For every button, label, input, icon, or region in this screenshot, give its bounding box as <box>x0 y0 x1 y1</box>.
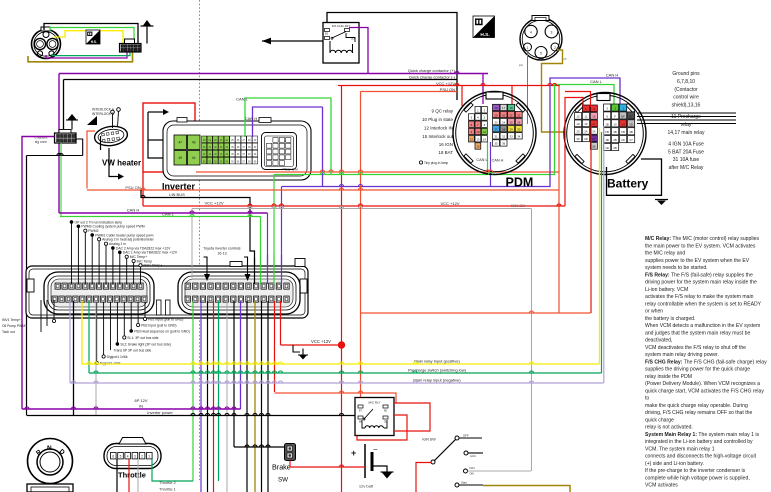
svg-text:11: 11 <box>584 115 587 119</box>
svg-text:22: 22 <box>517 113 521 117</box>
svg-text:23: 23 <box>494 120 498 124</box>
svg-text:1D: 1D <box>629 122 633 126</box>
svg-text:30: 30 <box>517 128 521 132</box>
svg-text:2: 2 <box>554 46 556 50</box>
svg-text:(Power Delivery Module). When: (Power Delivery Module). When VCM recogn… <box>645 381 760 387</box>
svg-text:IN: IN <box>139 404 143 409</box>
svg-text:12 Interlock IN: 12 Interlock IN <box>424 126 453 131</box>
svg-text:complete while high voltage po: complete while high voltage power is sup… <box>645 475 750 481</box>
svg-text:or when: or when <box>645 309 663 315</box>
svg-text:Main relay input (positive): Main relay input (positive) <box>414 359 460 364</box>
svg-text:PSU ON: PSU ON <box>440 87 455 92</box>
svg-text:SL2: Brake light (3P out bus s: SL2: Brake light (3P out bus side) <box>120 342 170 346</box>
svg-text:15: 15 <box>476 145 480 149</box>
svg-text:the M/C relay and: the M/C relay and <box>645 251 685 257</box>
svg-text:BF: BF <box>621 114 625 118</box>
svg-text:Digipot1 1r/6k: Digipot1 1r/6k <box>107 355 128 359</box>
svg-text:sig conn: sig conn <box>35 140 47 144</box>
svg-text:M/C RLY: M/C RLY <box>369 401 381 405</box>
svg-text:VCC +12V: VCC +12V <box>311 339 331 344</box>
svg-text:INTERLOCK B: INTERLOCK B <box>92 112 115 116</box>
svg-text:the main power to the EV syste: the main power to the EV system. VCM act… <box>645 243 756 249</box>
svg-text:1B: 1B <box>605 138 609 142</box>
svg-text:IGN ON: IGN ON <box>511 203 525 208</box>
svg-text:14,17 main relay: 14,17 main relay <box>668 130 705 136</box>
svg-text:18: 18 <box>510 106 514 110</box>
svg-text:16: 16 <box>592 115 596 119</box>
svg-text:relay inside the PDM: relay inside the PDM <box>645 374 692 380</box>
svg-text:31 10A fuse: 31 10A fuse <box>673 157 700 163</box>
svg-text:17: 17 <box>592 122 596 126</box>
svg-text:5 BAT 20A Fuse: 5 BAT 20A Fuse <box>668 149 704 155</box>
svg-text:15: 15 <box>614 122 618 126</box>
svg-text:Throttle 1: Throttle 1 <box>159 487 177 492</box>
svg-text:Oil Pump PWM1: Oil Pump PWM1 <box>2 324 27 328</box>
svg-text:6: 6 <box>112 455 114 459</box>
svg-text:19: 19 <box>576 122 580 126</box>
svg-text:3: 3 <box>551 31 553 35</box>
svg-text:H.S.: H.S. <box>91 40 97 44</box>
svg-text:1D: 1D <box>605 146 609 150</box>
svg-text:VW heater: VW heater <box>102 159 141 168</box>
svg-text:PSU ON: PSU ON <box>282 167 297 172</box>
svg-text:Ground pins: Ground pins <box>672 71 700 77</box>
svg-text:3: 3 <box>134 455 136 459</box>
svg-text:Digipot2 1r/6k: Digipot2 1r/6k <box>100 361 121 365</box>
svg-text:2D: 2D <box>621 138 625 142</box>
svg-text:36: 36 <box>502 142 506 146</box>
svg-text:10: 10 <box>584 122 588 126</box>
svg-text:BC: BC <box>629 114 633 118</box>
svg-text:CAN L: CAN L <box>236 97 249 102</box>
svg-text:11: 11 <box>483 130 486 134</box>
svg-text:CAN L: CAN L <box>162 211 175 216</box>
svg-text:+: + <box>351 448 356 458</box>
svg-text:to: to <box>645 396 649 402</box>
svg-text:OFF: OFF <box>463 434 469 438</box>
svg-text:system needs to be started.: system needs to be started. <box>645 265 708 271</box>
svg-text:30: 30 <box>576 137 580 141</box>
svg-text:5: 5 <box>120 455 122 459</box>
svg-text:16 IGN: 16 IGN <box>439 142 453 147</box>
svg-text:PB3 Heat sequence on (pull to: PB3 Heat sequence on (pull to GND) <box>134 329 190 333</box>
svg-text:IGN SW: IGN SW <box>422 438 436 442</box>
svg-text:21: 21 <box>592 137 596 141</box>
svg-text:15 Interlock out: 15 Interlock out <box>422 134 454 139</box>
svg-text:deactivated,: deactivated, <box>645 338 672 344</box>
svg-text:2A: 2A <box>584 130 588 134</box>
svg-text:24: 24 <box>502 120 506 124</box>
svg-text:Analog 2 in heat adj potentiom: Analog 2 in heat adj potentiometer <box>102 238 155 242</box>
svg-text:46: 46 <box>192 141 196 145</box>
svg-text:relay controllable when the sy: relay controllable when the system is se… <box>645 301 762 307</box>
svg-text:2B: 2B <box>613 138 617 142</box>
svg-text:Li-ion battery. VCM: Li-ion battery. VCM <box>645 287 688 293</box>
svg-text:32: 32 <box>502 135 506 139</box>
svg-text:driving power for the system m: driving power for the system main relay … <box>645 280 757 286</box>
svg-text:12: 12 <box>470 137 474 141</box>
svg-text:FB: FB <box>621 130 625 134</box>
svg-text:2B: 2B <box>613 130 617 134</box>
svg-text:Start: Start <box>461 481 467 485</box>
svg-text:INV1 Temp+: INV1 Temp+ <box>2 318 21 322</box>
svg-text:11 Precharge: 11 Precharge <box>671 114 701 120</box>
svg-text:PWM3 Cooling system pump speed: PWM3 Cooling system pump speed PWM <box>81 225 144 229</box>
svg-text:10: 10 <box>476 130 480 134</box>
svg-text:13: 13 <box>476 137 480 141</box>
svg-text:supplies the driving power for: supplies the driving power for the quick… <box>645 367 750 373</box>
svg-text:(Contactor: (Contactor <box>674 87 698 93</box>
svg-text:Quick charge contactor (-): Quick charge contactor (-) <box>409 75 456 80</box>
svg-text:Throttle 2: Throttle 2 <box>159 480 177 485</box>
svg-text:PSU ON: PSU ON <box>125 185 140 190</box>
svg-text:control wire: control wire <box>673 95 699 101</box>
svg-text:relay is not activated.: relay is not activated. <box>645 425 693 431</box>
svg-text:2B: 2B <box>613 146 617 150</box>
svg-text:quick charge: quick charge <box>645 417 674 423</box>
svg-text:18 BAT: 18 BAT <box>438 150 453 155</box>
svg-text:System Main Relay 1: The syste: System Main Relay 1: The system main rel… <box>645 432 759 438</box>
svg-text:29: 29 <box>510 128 514 132</box>
svg-text:SW: SW <box>278 477 288 484</box>
svg-text:relay: relay <box>681 122 692 128</box>
svg-text:DAC 1 Amp via TBA2822 max +12V: DAC 1 Amp via TBA2822 max +12V <box>123 251 178 255</box>
svg-text:INTERLOCK A: INTERLOCK A <box>92 108 115 112</box>
svg-text:17: 17 <box>502 106 506 110</box>
svg-text:Trans 6P 3P out bus side: Trans 6P 3P out bus side <box>114 348 152 352</box>
svg-text:16-13: 16-13 <box>217 252 226 256</box>
svg-text:FB: FB <box>605 130 609 134</box>
svg-text:(+) side and Li-ion battery.: (+) side and Li-ion battery. <box>645 461 704 467</box>
svg-text:VCC +12V: VCC +12V <box>436 81 455 86</box>
svg-text:45: 45 <box>178 156 182 160</box>
svg-text:10 Plug in state: 10 Plug in state <box>422 117 454 122</box>
svg-text:driving, F/S CHG relay remains: driving, F/S CHG relay remains OFF so th… <box>645 410 752 416</box>
svg-text:35: 35 <box>494 142 498 146</box>
svg-text:N: N <box>47 445 52 452</box>
svg-text:25: 25 <box>510 120 514 124</box>
svg-text:Quick charge contactor (+): Quick charge contactor (+) <box>408 68 456 73</box>
svg-text:CAN H: CAN H <box>492 159 504 163</box>
svg-text:6,7,8,10: 6,7,8,10 <box>677 79 695 85</box>
svg-text:47: 47 <box>178 141 182 145</box>
svg-text:supplies power to the EV syste: supplies power to the EV system when the… <box>645 258 750 264</box>
svg-text:20: 20 <box>576 130 580 134</box>
svg-text:Main relay input (negative): Main relay input (negative) <box>413 378 461 383</box>
svg-text:27: 27 <box>494 128 498 132</box>
svg-text:connects and disconnects the h: connects and disconnects the high-voltag… <box>645 454 757 460</box>
svg-text:the battery is charged.: the battery is charged. <box>645 316 695 322</box>
svg-text:Battery: Battery <box>607 177 649 191</box>
svg-text:Toyota inverter controls: Toyota inverter controls <box>203 247 240 251</box>
svg-text:Brake: Brake <box>272 463 291 472</box>
svg-text:4 IGN 10A Fuse: 4 IGN 10A Fuse <box>668 141 704 147</box>
svg-text:14: 14 <box>622 122 626 126</box>
svg-text:PB2 input (pull to GND): PB2 input (pull to GND) <box>141 323 176 327</box>
svg-text:PDM: PDM <box>506 176 534 190</box>
svg-text:5: 5 <box>540 52 542 56</box>
svg-text:VCC +12V: VCC +12V <box>204 201 223 206</box>
svg-text:F: F <box>614 114 616 118</box>
svg-text:CAN H: CAN H <box>245 116 258 121</box>
svg-text:1: 1 <box>527 46 529 50</box>
svg-text:If the pre-charge to the inver: If the pre-charge to the inverter conden… <box>645 468 746 474</box>
svg-text:F/S Relay: The F/S (fail-safe): F/S Relay: The F/S (fail-safe) relay sup… <box>645 272 753 278</box>
svg-text:33: 33 <box>510 135 514 139</box>
svg-text:B1: B1 <box>325 32 329 36</box>
svg-text:4: 4 <box>127 455 129 459</box>
svg-text:Throttle: Throttle <box>118 471 146 480</box>
svg-text:make the quick charge relay op: make the quick charge relay operable. Du… <box>645 403 748 409</box>
svg-text:CAN L: CAN L <box>590 79 603 84</box>
svg-text:PB1 input (pull to GND): PB1 input (pull to GND) <box>148 317 183 321</box>
svg-text:19: 19 <box>494 113 498 117</box>
svg-text:INV1 Temp+: INV1 Temp+ <box>144 264 163 268</box>
svg-text:27: 27 <box>630 138 634 142</box>
svg-text:1: 1 <box>148 455 150 459</box>
svg-text:20: 20 <box>502 113 506 117</box>
svg-text:after M/C Relay: after M/C Relay <box>669 165 704 171</box>
svg-text:CAN L: CAN L <box>476 158 487 162</box>
svg-text:integrated in the Li-ion batte: integrated in the Li-ion battery and con… <box>645 439 753 445</box>
svg-text:2B: 2B <box>592 145 596 149</box>
svg-text:12v batt: 12v batt <box>359 484 374 489</box>
svg-text:M/C Relay: The M/C (motor cont: M/C Relay: The M/C (motor control) relay… <box>645 236 759 242</box>
svg-text:−: − <box>373 445 378 454</box>
svg-text:2B: 2B <box>629 130 633 134</box>
svg-text:28: 28 <box>502 128 506 132</box>
svg-text:SL1: 3P out bus side: SL1: 3P out bus side <box>127 336 158 340</box>
svg-text:system main relay driving powe: system main relay driving power. <box>645 352 719 358</box>
svg-text:24: 24 <box>592 130 596 134</box>
svg-text:31: 31 <box>494 135 498 139</box>
svg-text:CAN H: CAN H <box>127 208 140 213</box>
svg-text:1B: 1B <box>605 122 609 126</box>
svg-text:F/S CHG RLY: F/S CHG RLY <box>332 24 351 28</box>
svg-text:21: 21 <box>510 113 514 117</box>
svg-text:quick charge start, VCM activa: quick charge start, VCM activates the F/… <box>645 388 764 394</box>
svg-text:LIN BUS: LIN BUS <box>169 192 185 197</box>
svg-text:44: 44 <box>192 156 196 160</box>
svg-text:9 QC relay: 9 QC relay <box>431 109 453 114</box>
svg-text:Tach out: Tach out <box>2 330 15 334</box>
svg-text:activates the F/S relay to mak: activates the F/S relay to make the syst… <box>645 294 754 300</box>
svg-text:14: 14 <box>483 137 487 141</box>
svg-text:34: 34 <box>517 135 521 139</box>
svg-text:Inverter power: Inverter power <box>147 410 173 415</box>
svg-text:4: 4 <box>530 31 532 35</box>
svg-text:ACC: ACC <box>470 454 476 458</box>
svg-text:2: 2 <box>141 455 143 459</box>
svg-text:IGN: IGN <box>470 466 475 470</box>
svg-text:26: 26 <box>517 120 521 124</box>
svg-text:ON: ON <box>470 472 474 476</box>
svg-text:shield),13,16: shield),13,16 <box>672 103 701 109</box>
svg-text:PP: PP <box>519 64 523 68</box>
svg-text:F/S CHG Relay: The F/S CHG (fa: F/S CHG Relay: The F/S CHG (fail-safe ch… <box>645 359 767 365</box>
svg-text:12: 12 <box>576 115 580 119</box>
svg-text:VCM deactivates the F/S relay: VCM deactivates the F/S relay to shut of… <box>645 345 746 351</box>
svg-text:and judges that the system mai: and judges that the system main relay mu… <box>645 330 750 336</box>
svg-text:Tiny plug-in lamp: Tiny plug-in lamp <box>424 161 448 165</box>
svg-text:16: 16 <box>494 106 498 110</box>
svg-text:H.S.: H.S. <box>480 32 489 38</box>
svg-text:VCM. The system main relay 1: VCM. The system main relay 1 <box>645 446 715 452</box>
svg-text:CAN H: CAN H <box>606 73 619 78</box>
svg-text:When VCM detects a malfunction: When VCM detects a malfunction in the EV… <box>645 323 760 329</box>
svg-text:VCC +12V: VCC +12V <box>440 201 459 206</box>
svg-text:VCM activates: VCM activates <box>645 483 678 489</box>
svg-text:6P 12V: 6P 12V <box>134 398 147 403</box>
svg-text:3D: 3D <box>584 137 588 141</box>
